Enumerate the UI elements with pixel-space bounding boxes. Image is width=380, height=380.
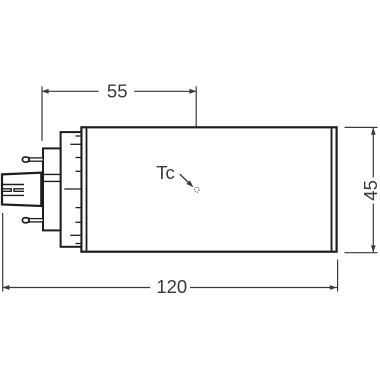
dimension 45 line top segment: [372, 128, 374, 178]
dimension 55 right arrowhead: [189, 89, 196, 94]
base rib tick 4: [76, 170, 82, 172]
dimension 55 line left segment: [42, 90, 99, 92]
base rib tick 7: [76, 221, 82, 223]
base rib tick 8 (long): [70, 234, 81, 236]
top pin cap divider: [28, 157, 30, 162]
dimension 45 top extension line: [345, 126, 378, 128]
bottom pin body: [29, 219, 43, 222]
dimension 45 top arrowhead: [371, 128, 376, 135]
lamp tube body: [81, 127, 336, 251]
tube right end seam: [331, 128, 333, 250]
key marking top line: [3, 184, 25, 186]
top pin body: [29, 158, 43, 161]
key marking bottom line: [3, 194, 25, 196]
dimension 45 bottom extension line: [345, 252, 378, 254]
dimension 120 line left segment: [3, 287, 151, 289]
dimension 120 right arrowhead: [330, 285, 337, 290]
key marking left bracket: [3, 189, 12, 192]
dimension 120 left extension line: [2, 213, 4, 292]
dimension 55 left extension line: [41, 86, 43, 140]
svg-text:45: 45: [360, 180, 380, 201]
dimension 120 line right segment: [190, 287, 337, 289]
tube left end seam: [86, 128, 88, 250]
plug interior line upper: [43, 173, 61, 175]
top pin cap: [22, 157, 29, 162]
dimension 55 line right segment: [134, 90, 196, 92]
plug interior line lower: [43, 180, 61, 182]
base rib tick 6: [76, 207, 82, 209]
key marking right bracket: [14, 189, 24, 192]
dimension 45 bottom arrowhead: [371, 245, 376, 252]
dimension 45 line bottom segment: [372, 204, 374, 253]
base rib tick 3: [76, 157, 82, 159]
bottom pin cap: [22, 218, 29, 223]
Tc pointer arrowhead: [187, 180, 194, 187]
base rib tick 2 (long): [70, 143, 81, 145]
svg-text:120: 120: [156, 276, 187, 297]
base rib tick 9: [76, 243, 82, 245]
Tc measuring point marker: [194, 187, 199, 192]
svg-text:Tc: Tc: [156, 162, 175, 183]
dimension 120 right extension line: [337, 260, 339, 292]
dimension 55 right extension line: [195, 86, 197, 176]
plug body: [43, 148, 61, 230]
key block: [2, 173, 41, 206]
dimension 55 left arrowhead: [42, 89, 49, 94]
ribbed base housing: [61, 132, 82, 247]
Tc pointer arrow line: [180, 174, 189, 183]
svg-text:55: 55: [107, 81, 128, 102]
bottom pin cap divider: [28, 218, 30, 223]
base rib tick 1: [76, 135, 82, 137]
dimension 120 left arrowhead: [2, 285, 9, 290]
base rib tick 5 (center long): [64, 188, 81, 190]
